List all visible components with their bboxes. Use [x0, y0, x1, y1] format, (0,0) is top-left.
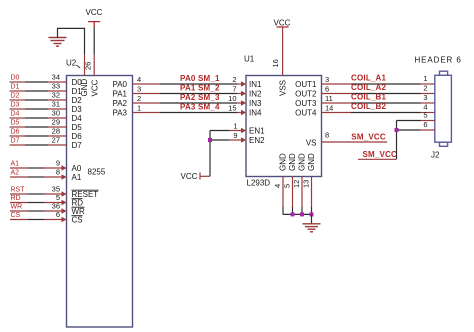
- svg-text:D5: D5: [11, 120, 20, 127]
- svg-text:D6: D6: [72, 132, 83, 141]
- wire VCC to U2 pin 26: [93, 27, 95, 76]
- svg-text:8: 8: [56, 168, 60, 177]
- svg-text:GND: GND: [298, 153, 307, 171]
- wire VCC port to EN1/EN2: [201, 128, 247, 177]
- node D0 / U2 pin 34: [10, 73, 83, 88]
- junction dot J2 pin 6: [395, 128, 399, 132]
- svg-text:27: 27: [52, 136, 60, 145]
- svg-text:A1: A1: [11, 161, 20, 168]
- svg-text:D7: D7: [72, 141, 83, 150]
- svg-text:4: 4: [137, 75, 141, 84]
- op IC U1 L293D body: [246, 76, 322, 177]
- svg-text:3: 3: [423, 93, 427, 102]
- svg-text:COIL_B1: COIL_B1: [351, 93, 387, 102]
- svg-text:A1: A1: [72, 173, 82, 182]
- wire PA2 SM_3: U2 pin 2 (PA2) to U1 pin 10: [112, 93, 246, 108]
- junction dots on GND bus: [291, 212, 314, 216]
- svg-text:D3: D3: [11, 102, 20, 109]
- svg-text:RD: RD: [11, 195, 21, 202]
- svg-text:12: 12: [292, 180, 301, 188]
- svg-text:CS: CS: [11, 212, 21, 219]
- wire SM_VCC from U1 pin 8 (VS): [322, 131, 388, 143]
- wire COIL_B2: U1 pin 14 (OUT4) to J2 pin 4: [295, 102, 435, 118]
- ground symbol below U1: [303, 224, 321, 232]
- svg-text:EN2: EN2: [249, 136, 265, 145]
- svg-text:34: 34: [52, 73, 60, 82]
- U1 GND pin 5: [283, 153, 298, 214]
- svg-text:PA0 SM_1: PA0 SM_1: [180, 74, 220, 83]
- svg-text:30: 30: [52, 109, 60, 118]
- wire COIL_B1: U1 pin 11 (OUT3) to J2 pin 3: [295, 93, 435, 109]
- node RST / U2 pin 35 (RESET): [10, 185, 99, 200]
- U2 pin tick: [77, 65, 81, 68]
- op IC U2 8255 body: [67, 76, 133, 328]
- node D1 / U2 pin 33: [10, 82, 83, 97]
- svg-text:OUT3: OUT3: [295, 99, 317, 108]
- svg-text:PA3: PA3: [112, 109, 127, 118]
- svg-text:D4: D4: [72, 114, 83, 123]
- svg-text:IN4: IN4: [249, 109, 262, 118]
- svg-text:VSS: VSS: [279, 80, 288, 96]
- wire COIL_A1: U1 pin 3 (OUT1) to J2 pin 1: [295, 74, 435, 90]
- pin names EN1 EN2: [249, 127, 265, 146]
- svg-text:D1: D1: [72, 87, 83, 96]
- svg-text:7: 7: [232, 85, 236, 94]
- svg-text:9: 9: [56, 159, 60, 168]
- svg-text:A2: A2: [11, 170, 20, 177]
- svg-text:RST: RST: [11, 187, 26, 194]
- svg-text:3: 3: [137, 85, 141, 94]
- VCC power symbol above U2: [86, 8, 103, 27]
- wire GND bus: [283, 213, 312, 215]
- svg-text:33: 33: [52, 82, 60, 91]
- svg-text:WR: WR: [11, 204, 23, 211]
- svg-text:1: 1: [137, 104, 141, 113]
- svg-text:6: 6: [325, 85, 329, 94]
- svg-text:D2: D2: [11, 93, 20, 100]
- J2 pin 5 stub: [421, 111, 435, 121]
- svg-text:D0: D0: [72, 78, 83, 87]
- svg-text:D1: D1: [11, 84, 20, 91]
- svg-text:COIL_A1: COIL_A1: [351, 74, 387, 83]
- svg-text:GND: GND: [307, 153, 316, 171]
- svg-text:PA3 SM_4: PA3 SM_4: [180, 103, 220, 112]
- svg-text:IN3: IN3: [249, 99, 262, 108]
- wire PA3 SM_4: U2 pin 1 (PA3) to U1 pin 15: [112, 103, 246, 118]
- node D4 / U2 pin 30: [10, 109, 83, 124]
- VCC power symbol above U1: [274, 19, 291, 28]
- svg-text:4: 4: [273, 184, 282, 188]
- node A2 / U2 pin 8 (A1): [10, 168, 82, 183]
- svg-text:GND: GND: [288, 153, 297, 171]
- svg-text:OUT1: OUT1: [295, 80, 317, 89]
- svg-text:2: 2: [137, 94, 141, 103]
- svg-text:OUT4: OUT4: [295, 109, 317, 118]
- U1 GND pin 12: [292, 153, 307, 214]
- node D6 / U2 pin 28: [10, 127, 83, 142]
- svg-text:D5: D5: [72, 123, 83, 132]
- svg-text:8: 8: [325, 131, 329, 140]
- svg-text:D4: D4: [11, 111, 20, 118]
- svg-text:2: 2: [232, 75, 236, 84]
- svg-text:PA1: PA1: [112, 90, 127, 99]
- svg-text:COIL_A2: COIL_A2: [351, 83, 387, 92]
- svg-text:OUT2: OUT2: [295, 90, 317, 99]
- svg-text:COIL_B2: COIL_B2: [351, 102, 387, 111]
- svg-text:J2: J2: [431, 151, 440, 160]
- svg-text:D6: D6: [11, 129, 20, 136]
- VCC port (net to EN pins): [181, 172, 201, 181]
- svg-text:8255: 8255: [88, 168, 106, 177]
- J2 pin 6 stub: [421, 120, 435, 130]
- svg-text:PA2: PA2: [112, 99, 127, 108]
- svg-text:SM_VCC: SM_VCC: [351, 133, 386, 142]
- svg-text:D7: D7: [11, 138, 20, 145]
- wire COIL_A2: U1 pin 6 (OUT2) to J2 pin 2: [295, 83, 435, 99]
- svg-text:PA1 SM_2: PA1 SM_2: [180, 84, 220, 93]
- svg-text:10: 10: [228, 94, 236, 103]
- svg-text:PA0: PA0: [112, 80, 127, 89]
- svg-text:3: 3: [325, 75, 329, 84]
- svg-text:9: 9: [233, 131, 237, 140]
- wire PA0 SM_1: U2 pin 4 (PA0) to U1 pin 2: [112, 74, 246, 89]
- svg-text:SM_VCC: SM_VCC: [363, 150, 398, 159]
- wire GND stem: [311, 214, 313, 223]
- svg-text:2: 2: [423, 84, 427, 93]
- svg-text:32: 32: [52, 91, 60, 100]
- svg-text:VCC: VCC: [86, 8, 103, 17]
- node CS / U2 pin 6 (CS): [10, 210, 83, 225]
- svg-text:VCC: VCC: [274, 19, 291, 28]
- svg-text:28: 28: [52, 127, 60, 136]
- wire VCC to U1 pin 16 (VSS): [282, 27, 284, 76]
- svg-text:16: 16: [271, 59, 280, 67]
- svg-text:6: 6: [56, 210, 60, 219]
- svg-text:VS: VS: [306, 139, 317, 148]
- svg-text:15: 15: [228, 104, 236, 113]
- svg-text:5: 5: [283, 184, 292, 188]
- wire ground to U2 GND pin: [58, 28, 85, 75]
- node D3 / U2 pin 31: [10, 100, 83, 115]
- svg-text:A0: A0: [72, 164, 82, 173]
- svg-text:U2: U2: [66, 59, 77, 68]
- U1 GND pin 13: [302, 153, 317, 214]
- node WR / U2 pin 36 (WR): [10, 202, 85, 217]
- svg-text:29: 29: [52, 118, 60, 127]
- svg-text:PA2 SM_3: PA2 SM_3: [180, 93, 220, 102]
- node D5 / U2 pin 29: [10, 118, 83, 133]
- connector J2 HEADER 6 body: [435, 71, 452, 146]
- svg-text:1: 1: [423, 74, 427, 83]
- svg-text:GND: GND: [279, 153, 288, 171]
- svg-text:5: 5: [423, 111, 427, 120]
- node D7 / U2 pin 27: [10, 136, 83, 151]
- svg-text:EN1: EN1: [249, 127, 265, 136]
- wire PA1 SM_2: U2 pin 3 (PA1) to U1 pin 7: [112, 84, 246, 99]
- svg-text:U1: U1: [244, 55, 255, 64]
- svg-text:13: 13: [302, 180, 311, 188]
- svg-text:D2: D2: [72, 96, 83, 105]
- node A1 / U2 pin 9 (A0): [10, 159, 82, 174]
- node RD / U2 pin 5 (RD): [10, 193, 83, 208]
- svg-text:1: 1: [233, 122, 237, 131]
- svg-text:L293D: L293D: [247, 179, 271, 188]
- svg-text:31: 31: [52, 100, 60, 109]
- svg-text:VCC: VCC: [91, 79, 100, 96]
- node D2 / U2 pin 32: [10, 91, 83, 106]
- svg-text:14: 14: [325, 104, 333, 113]
- svg-text:6: 6: [423, 120, 427, 129]
- wire SM_VCC to J2 pins 5/6: [358, 121, 421, 160]
- svg-text:HEADER 6: HEADER 6: [415, 56, 462, 65]
- svg-text:11: 11: [325, 94, 333, 103]
- svg-text:D0: D0: [11, 75, 20, 82]
- svg-text:CS: CS: [72, 216, 83, 225]
- svg-text:IN2: IN2: [249, 90, 262, 99]
- junction dot EN2: [208, 138, 212, 142]
- svg-text:IN1: IN1: [249, 80, 262, 89]
- svg-text:VCC: VCC: [181, 172, 198, 181]
- svg-text:D3: D3: [72, 105, 83, 114]
- ground symbol top-left: [49, 38, 67, 47]
- U1 GND pin 4: [273, 153, 288, 214]
